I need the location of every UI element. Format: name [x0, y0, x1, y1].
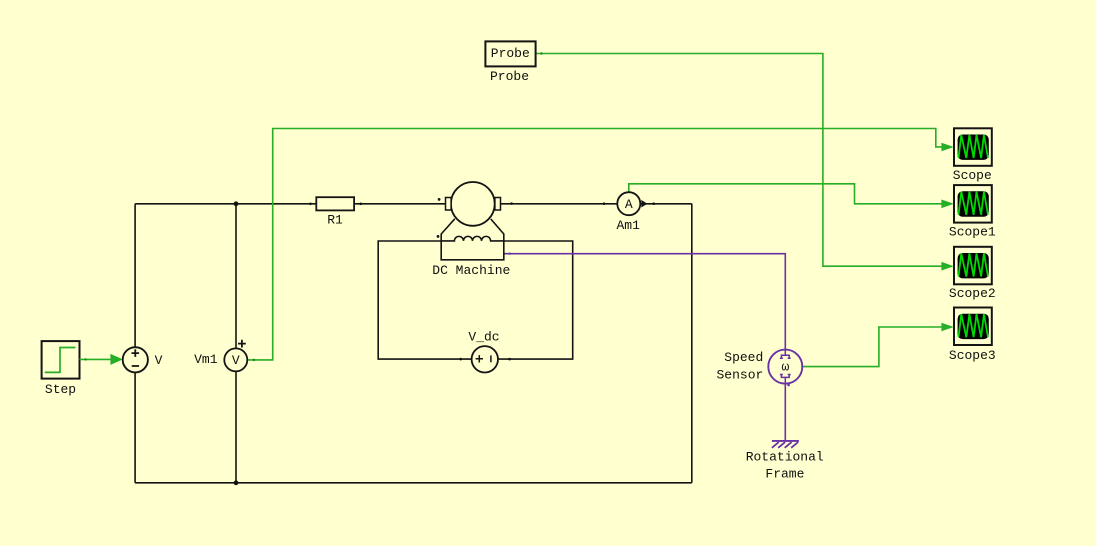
scope Scope3: [949, 308, 996, 363]
svg-text:Scope2: Scope2: [949, 286, 996, 301]
svg-text:Sensor: Sensor: [716, 367, 763, 382]
node port dot Vm1 output: [253, 359, 255, 361]
node polarity dot field: [437, 235, 440, 238]
wire Vm1 upper lead: [235, 204, 237, 349]
resistor R1: [316, 197, 354, 227]
svg-text:Frame: Frame: [765, 467, 804, 482]
wire arrow into Scope1: [941, 200, 953, 209]
wire arrow into Scope2: [941, 262, 953, 271]
wire Step to V (green) with arrow: [80, 354, 123, 365]
wire right drop: [691, 204, 693, 483]
svg-text:V: V: [232, 353, 240, 368]
wire Am1 to Scope1 (green): [629, 184, 942, 204]
wire Probe to Scope2 (green): [536, 54, 942, 267]
scope Scope: [953, 128, 992, 183]
svg-text:Probe: Probe: [491, 46, 530, 61]
node polarity dot armature: [438, 198, 441, 201]
svg-text:Scope3: Scope3: [949, 348, 996, 363]
svg-text:ω: ω: [781, 360, 789, 375]
scope Scope2: [949, 247, 996, 301]
probe block Probe: [485, 41, 535, 84]
wire Vm1 lower lead: [235, 371, 237, 482]
wire DC machine to Am1: [501, 203, 618, 205]
node junction bottom: [234, 480, 239, 485]
wire arrow into Scope3: [941, 323, 953, 332]
node port dot V_dc left: [459, 358, 462, 361]
scope Scope1: [949, 185, 996, 239]
node port dot R1 right: [360, 203, 363, 206]
svg-text:DC Machine: DC Machine: [432, 263, 510, 278]
node port dot armature right: [510, 202, 513, 205]
ground Rotational Frame: [746, 441, 824, 482]
wire Speed Sensor to Rotational Frame (purple): [784, 384, 786, 441]
wire R1 to DC machine: [354, 203, 445, 205]
svg-text:Speed: Speed: [724, 350, 763, 365]
wire bottom rail: [135, 482, 692, 484]
svg-text:Probe: Probe: [490, 69, 529, 84]
voltmeter Vm1: [194, 340, 247, 372]
wire V minus lead: [134, 372, 136, 483]
svg-text:A: A: [625, 197, 633, 212]
svg-text:Am1: Am1: [616, 218, 640, 233]
wire Speed Sensor to Scope3 (green): [802, 327, 942, 367]
svg-text:V: V: [155, 353, 163, 368]
node port dot V_dc right: [508, 358, 511, 361]
svg-text:V_dc: V_dc: [468, 330, 499, 345]
svg-text:Scope: Scope: [953, 168, 992, 183]
wire Am1 output: [640, 203, 692, 205]
svg-text:Step: Step: [45, 382, 76, 397]
node port dot field purple: [509, 253, 511, 255]
dc source V_dc: [468, 330, 499, 373]
speed sensor Speed Sensor: [716, 350, 802, 384]
node port dot Am1 right: [652, 202, 655, 205]
node port dot Probe output: [540, 52, 542, 54]
node port dot R1 left: [309, 203, 312, 206]
wire field loop right: [498, 241, 573, 359]
svg-text:Scope1: Scope1: [949, 224, 996, 239]
node junction top (Vm1 tap): [234, 201, 239, 206]
step source Step: [42, 341, 80, 397]
voltage source V: [123, 347, 163, 372]
dc machine DC Machine: [432, 182, 510, 278]
wire field loop left: [378, 241, 471, 359]
svg-text:Vm1: Vm1: [194, 352, 218, 367]
svg-text:R1: R1: [327, 212, 343, 227]
node port dot Am1 left: [603, 202, 606, 205]
wire V plus lead: [134, 204, 136, 347]
node port dot Step output: [84, 358, 86, 360]
wire DC machine to Speed Sensor (purple): [504, 254, 786, 350]
wire top rail V to R1: [135, 203, 316, 205]
svg-text:Rotational: Rotational: [746, 450, 824, 465]
wire Vm1 to Scope (green): [247, 129, 942, 360]
ammeter Am1: [616, 192, 647, 233]
node port dot sensor bottom: [787, 384, 790, 387]
wire arrow into Scope: [941, 143, 953, 152]
